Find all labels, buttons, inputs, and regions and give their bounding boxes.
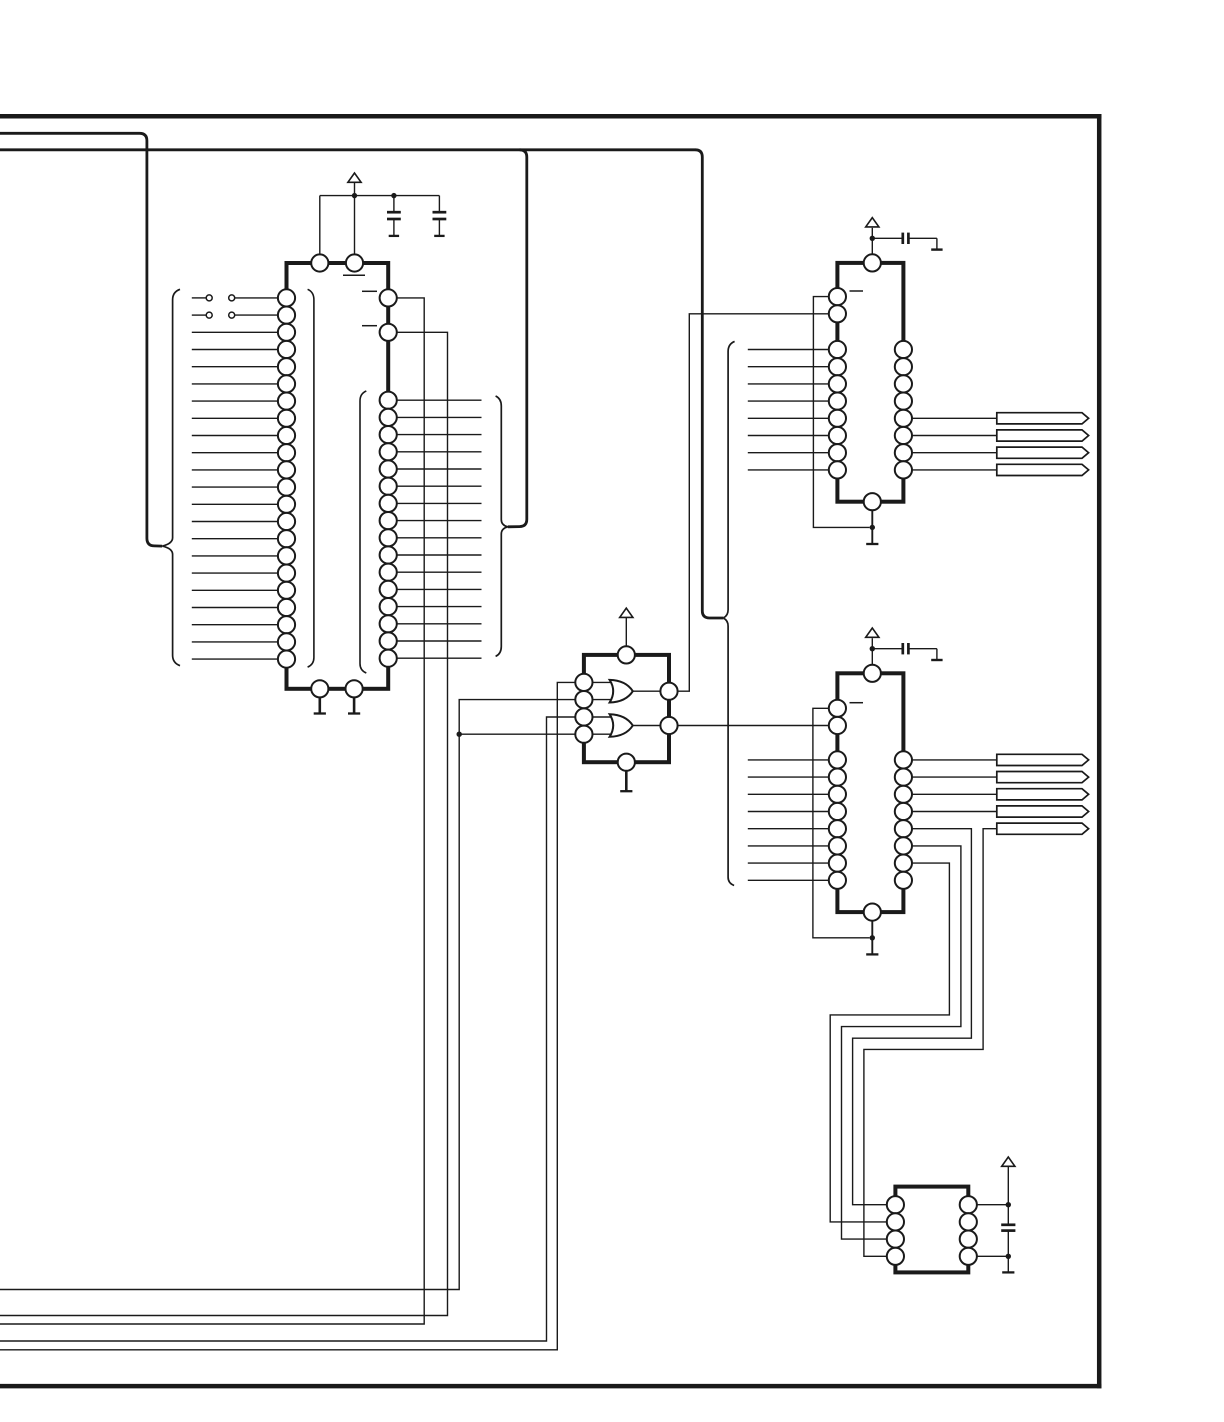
wire: U3 VCC pin lead bbox=[871, 638, 873, 665]
overbar label left of U1 pin A bbox=[362, 290, 377, 292]
IC U2 body (octal buffer) bbox=[837, 263, 903, 502]
IC U5 body (dual OR gate) bbox=[584, 655, 669, 762]
signal flag (U2 output 1) bbox=[997, 413, 1089, 424]
wire: U5 gate1 output up to U2 pin 2 bbox=[678, 314, 829, 691]
wire: junction to U5 gate input 4 bbox=[459, 733, 575, 735]
junction at U3 ground node bbox=[870, 935, 875, 940]
wire: bus B drop to U1 right-pin bus bracket point bbox=[508, 150, 527, 527]
IC U3 body (octal buffer) bbox=[837, 673, 903, 912]
capacitor C2 leads bbox=[438, 196, 440, 236]
jumper pad circle bbox=[206, 295, 212, 301]
capacitor C5 bbox=[1001, 1225, 1015, 1231]
ground below U1 bottom pin 2 bbox=[348, 697, 360, 713]
wires: U3 outputs 1-4 to flags bbox=[912, 760, 997, 812]
junction on U1 VCC rail bbox=[352, 193, 357, 198]
capacitor C4 bbox=[903, 643, 909, 654]
capacitor C1 leads bbox=[393, 196, 395, 236]
junction of gate inputs 2 and 4 net bbox=[457, 732, 462, 737]
VCC power arrow above U3 bbox=[866, 628, 879, 637]
U1 right control pins A,B bbox=[380, 289, 397, 341]
wire: U2 VCC node to capacitor C3 bbox=[872, 238, 937, 249]
U4 pins bbox=[887, 1196, 977, 1265]
U3 pins bbox=[829, 665, 912, 921]
U1 left pins (22) bbox=[278, 289, 295, 667]
U2 ground pin stub bbox=[871, 510, 873, 544]
wire: bus C drop toward U2/U3 input bus bracket point bbox=[695, 150, 723, 618]
signal flag (U3 output 3) bbox=[997, 789, 1089, 800]
signal flag (U3 output 5) bbox=[997, 823, 1089, 834]
wire: U3 pin 1 enable to ground node bbox=[813, 708, 870, 938]
ground below C2 bbox=[434, 235, 444, 238]
jumper pad circle bbox=[229, 312, 235, 318]
ground below U3 bbox=[866, 953, 878, 955]
U1 right data pins (16) bbox=[380, 392, 397, 667]
signal flag (U2 output 3) bbox=[997, 447, 1089, 458]
VCC power arrow above U5 bbox=[620, 608, 633, 617]
wires: U2 input pins bbox=[748, 350, 829, 470]
ground below U1 bottom pin 1 bbox=[314, 697, 326, 713]
wire: U3 VCC node to capacitor C4 bbox=[872, 649, 937, 660]
wire: U1 left pin 1 stub with jumper pads bbox=[192, 297, 278, 299]
ground for capacitor C3 bbox=[931, 248, 942, 250]
bus bracket: U1 inner right pin group bbox=[360, 391, 366, 673]
wires: U5 gate input stubs bbox=[593, 682, 616, 734]
OR gate U5-B bbox=[610, 714, 633, 737]
wire: U5 gate 1 output stub bbox=[632, 690, 660, 692]
overbar label at U2 pin 1 bbox=[850, 290, 864, 292]
wire: U2 pin 1 enable to ground node bbox=[813, 297, 869, 528]
jumper pad circle bbox=[229, 295, 235, 301]
bus bracket: U1 right-pin bus with middle feed point bbox=[496, 396, 508, 656]
bus bracket: U2 input bus (upper half, feed point at bus C) bbox=[724, 341, 735, 618]
ground below C1 bbox=[389, 235, 399, 238]
capacitor C2 bbox=[433, 212, 447, 219]
wire: U1 pin B to bottom-left page exit bbox=[0, 332, 448, 1315]
wire: U5 gate2 output to U3 pin 2 bbox=[678, 725, 829, 727]
overbar label left of U1 pin B bbox=[362, 325, 377, 327]
ground for capacitor C4 bbox=[931, 659, 942, 661]
bus bracket: U3 input bus (lower half, feed point at bus C) bbox=[724, 618, 735, 885]
overbar label under U1 top pin bbox=[343, 274, 365, 276]
wire: address bus A from left page edge to left bus bracket point bbox=[0, 133, 162, 546]
junction at U4 VCC node bbox=[1006, 1202, 1011, 1207]
U5 pins bbox=[575, 646, 677, 771]
wire: U3 output 5 to U4 pin 1 bbox=[853, 829, 972, 1205]
overbar label at U3 pin 1 bbox=[850, 702, 864, 704]
wire: U5 gate input 2 down to junction and bottom-left page exit bbox=[0, 700, 575, 1290]
ground below U5 bbox=[620, 771, 632, 791]
wires: U2 outputs to flags bbox=[912, 418, 997, 470]
bus bracket: U1 left-pin bus with middle feed point bbox=[162, 289, 180, 665]
wire: U3 output 6 to U4 pin 3 bbox=[842, 846, 961, 1239]
wire: U4 VCC riser and cap leads bbox=[1007, 1166, 1009, 1272]
wire: U2 VCC pin lead bbox=[871, 228, 873, 255]
wires: U1 left input pins 3-22 bbox=[192, 332, 278, 659]
wire: U4 pin 1R to VCC node bbox=[977, 1204, 1008, 1206]
signal flag (U3 output 2) bbox=[997, 772, 1089, 783]
junction at U3 VCC node bbox=[870, 646, 875, 651]
jumper pad circle bbox=[206, 312, 212, 318]
signal flag (U3 output 4) bbox=[997, 806, 1089, 817]
U2 pins bbox=[829, 254, 912, 510]
U1 bottom ground pins bbox=[311, 680, 363, 697]
OR gate U5-A bbox=[610, 680, 633, 703]
wire: U3 output 7 to U4 pin 2 bbox=[830, 863, 949, 1222]
junction at capacitor C1 tap bbox=[391, 193, 396, 198]
U3 ground pin stub bbox=[871, 921, 873, 955]
IC U1 body (large connector/gate-array) bbox=[287, 263, 389, 689]
U1 top power pins bbox=[311, 254, 363, 271]
ground below U4 capacitor bbox=[1002, 1271, 1014, 1273]
capacitor C1 bbox=[387, 212, 401, 219]
wire: U5 gate input 1 to bottom-left page exit bbox=[0, 682, 575, 1349]
wire: U1 power pins to VCC rail bbox=[320, 182, 440, 254]
wires: U1 right data pins 1-16 bbox=[397, 400, 482, 658]
junction at U4 ground node bbox=[1006, 1254, 1011, 1259]
signal flag (U3 output 1) bbox=[997, 754, 1089, 765]
VCC power arrow above U2 bbox=[866, 218, 879, 227]
signal flag (U2 output 4) bbox=[997, 464, 1089, 475]
junction at U2 ground node bbox=[870, 525, 875, 530]
VCC power arrow above U4 bbox=[1002, 1157, 1015, 1166]
wires: U3 input pins bbox=[748, 760, 829, 880]
ground below U2 bbox=[866, 543, 878, 545]
bus bracket: U1 inner left pin group bbox=[308, 289, 314, 667]
signal flag (U2 output 2) bbox=[997, 430, 1089, 441]
wire: data bus B/C horizontal from left page edge bbox=[0, 148, 696, 151]
junction at U2 VCC node bbox=[870, 236, 875, 241]
VCC power arrow above U1 bbox=[348, 173, 361, 182]
wire: U1 left pin 2 stub with jumper pads bbox=[192, 314, 278, 316]
IC U4 body (oscillator/driver) bbox=[895, 1187, 968, 1273]
wire: U4 pin 4R to ground node bbox=[977, 1255, 1008, 1257]
capacitor C3 bbox=[903, 233, 909, 244]
wire: U5 gate input 3 to bottom-left page exit bbox=[0, 717, 575, 1341]
wire: U5 gate 2 output stub bbox=[632, 725, 660, 727]
wire: U5 VCC pin lead bbox=[625, 617, 627, 646]
wire: U4 pin 4 to signal flag 5 bbox=[864, 829, 997, 1257]
wire: U1 pin A to bottom-left page exit bbox=[0, 298, 424, 1324]
